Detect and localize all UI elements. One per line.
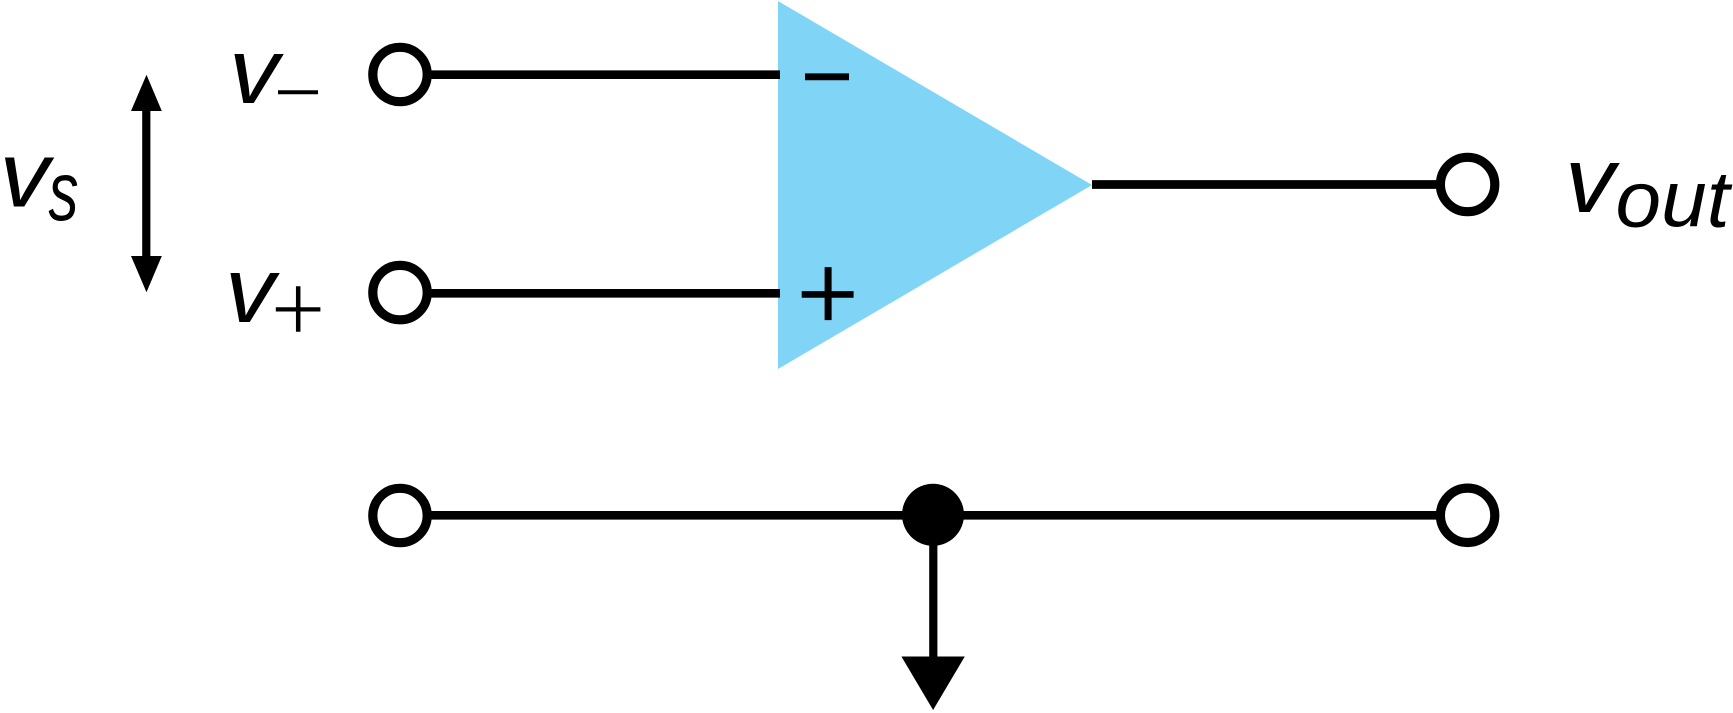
svg-text:s: s [49,144,79,238]
svg-text:v: v [229,19,284,123]
terminal bottom right [1440,488,1494,542]
vs arrowhead down [131,256,162,292]
terminal v+ [373,265,427,319]
svg-text:v: v [0,122,54,226]
terminal v- [373,47,427,101]
op-amp non-inverting pin plus [802,291,854,298]
op-amp inverting pin minus [805,73,849,80]
terminal vout [1440,157,1494,211]
junction node (bottom rail) [902,484,964,546]
svg-text:v: v [1565,128,1620,232]
wire: op-amp output to vout terminal [1092,180,1440,189]
terminal bottom left [373,488,427,542]
wire: junction to ground arrow [929,515,937,658]
op-amp U1 (triangle body) [778,1,1092,369]
wire: v+ input to op-amp [428,289,780,298]
wire: v- input to op-amp [428,70,780,79]
svg-text:out: out [1616,155,1733,244]
svg-text:v: v [225,238,280,342]
wire: bottom common rail [428,511,1440,520]
vs arrowhead up [131,75,162,111]
ground arrowhead [901,657,964,711]
source vs double arrow shaft [142,103,150,264]
